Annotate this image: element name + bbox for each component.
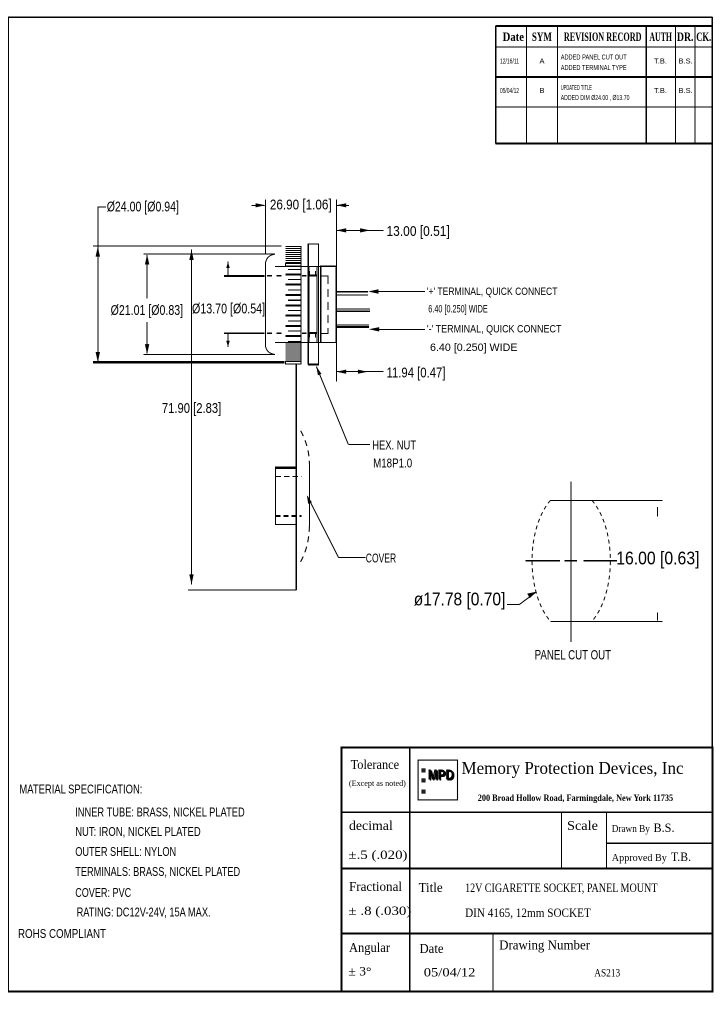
svg-text:AUTH: AUTH [649, 30, 672, 44]
svg-text:12V CIGARETTE SOCKET, PANEL MO: 12V CIGARETTE SOCKET, PANEL MOUNT [465, 881, 658, 895]
svg-text:Drawn By: Drawn By [612, 824, 651, 835]
svg-text:TERMINALS: BRASS, NICKEL PLATE: TERMINALS: BRASS, NICKEL PLATED [75, 864, 240, 879]
svg-text:12/16/11: 12/16/11 [500, 59, 519, 66]
flange arc bottom [266, 347, 275, 355]
svg-text:UPDATED TITLE: UPDATED TITLE [561, 83, 592, 92]
svg-text:PANEL CUT OUT: PANEL CUT OUT [535, 647, 612, 663]
revision row A [500, 52, 693, 72]
svg-text:T.B.: T.B. [654, 57, 667, 66]
svg-text:DIN 4165, 12mm SOCKET: DIN 4165, 12mm SOCKET [465, 906, 591, 920]
tube outline top (Ø21) [143, 253, 275, 255]
dim Ø21.01 [111, 255, 184, 355]
svg-text:Scale: Scale [567, 818, 598, 833]
cutout centerlines [526, 482, 617, 642]
svg-text:REVISION RECORD: REVISION RECORD [564, 30, 642, 44]
svg-text:COVER: PVC: COVER: PVC [75, 885, 131, 900]
bore line top hidden dashes [267, 275, 284, 277]
dim 16.00 ticks [656, 507, 658, 620]
svg-text:MATERIAL SPECIFICATION:: MATERIAL SPECIFICATION: [19, 782, 142, 797]
svg-text:± .8 (.030): ± .8 (.030) [348, 903, 411, 918]
hex nut [308, 244, 319, 364]
svg-text:B.S.: B.S. [654, 821, 675, 835]
middle terminal tab [336, 308, 370, 310]
cover strap dashed curve bottom [301, 526, 310, 562]
svg-text:6.40 [0.250] WIDE: 6.40 [0.250] WIDE [430, 342, 518, 354]
panel line [295, 364, 297, 591]
svg-text:±.5 (.020): ±.5 (.020) [348, 847, 407, 862]
svg-text:16.00 [0.63]: 16.00 [0.63] [616, 549, 699, 569]
dim 13.00 [336, 223, 450, 240]
cover cap rectangle [275, 468, 301, 525]
svg-text:MPD: MPD [428, 767, 454, 784]
rear body line bottom [275, 342, 336, 344]
svg-text:AS213: AS213 [594, 965, 620, 979]
svg-text:200 Broad Hollow Road, Farming: 200 Broad Hollow Road, Farmingdale, New … [478, 794, 674, 804]
rear body [321, 266, 337, 342]
svg-text:B.S.: B.S. [679, 86, 693, 95]
flange arc top [266, 254, 275, 262]
cover leader [307, 495, 366, 557]
knurl right edge [300, 246, 302, 363]
svg-text:A: A [540, 57, 545, 66]
dim Ø13.70 [192, 262, 265, 348]
svg-text:'-' TERMINAL, QUICK CONNECT: '-' TERMINAL, QUICK CONNECT [427, 324, 562, 336]
svg-text:B: B [540, 86, 545, 95]
material specification notes [18, 782, 245, 942]
svg-text:05/04/12: 05/04/12 [500, 88, 519, 95]
rear body hidden bore bracket [322, 275, 329, 277]
svg-text:ROHS COMPLIANT: ROHS COMPLIANT [18, 926, 106, 941]
cover strap solid mid [309, 464, 311, 526]
svg-text:'+' TERMINAL, QUICK CONNECT: '+' TERMINAL, QUICK CONNECT [427, 286, 558, 298]
terminals [336, 292, 370, 328]
svg-text:SYM: SYM [532, 30, 552, 44]
plus terminal leader [368, 289, 425, 293]
bore line bottom solid [224, 332, 265, 334]
svg-text:Drawing Number: Drawing Number [499, 938, 590, 953]
cover outline top (Ø24) [93, 246, 336, 362]
terminal labels [427, 286, 562, 354]
svg-text:OUTER SHELL: NYLON: OUTER SHELL: NYLON [75, 844, 176, 859]
svg-text:05/04/12: 05/04/12 [424, 964, 476, 979]
cutout flats [551, 500, 663, 621]
svg-text:ADDED DIM Ø24.00 , Ø13.70: ADDED DIM Ø24.00 , Ø13.70 [561, 93, 630, 102]
revision row B [500, 83, 693, 102]
dim Ø17.78 leader [414, 590, 537, 610]
svg-text:Ø21.01 [Ø0.83]: Ø21.01 [Ø0.83] [111, 302, 184, 319]
bore line bottom hidden dashes [267, 332, 284, 334]
cover outline bottom thick [93, 361, 285, 363]
svg-text:Fractional: Fractional [349, 879, 402, 894]
dim 11.94 [336, 364, 445, 381]
cutout dashed arcs [532, 500, 610, 621]
dim Ø24.00 [96, 199, 179, 362]
svg-text:Date: Date [420, 941, 444, 956]
svg-text:11.94 [0.47]: 11.94 [0.47] [387, 364, 446, 381]
plus terminal tab [336, 291, 368, 293]
svg-text:26.90 [1.06]: 26.90 [1.06] [270, 196, 332, 213]
knurl ribbed band [286, 246, 301, 364]
dim 71.90 [162, 250, 297, 590]
svg-text:COVER: COVER [366, 551, 396, 566]
svg-text:M18P1.0: M18P1.0 [373, 455, 412, 470]
svg-text:NUT: IRON, NICKEL PLATED: NUT: IRON, NICKEL PLATED [75, 824, 201, 839]
svg-text:Tolerance: Tolerance [351, 757, 400, 772]
bore line top solid (Ø13.70) [224, 275, 265, 277]
svg-text:Angular: Angular [349, 940, 390, 955]
cover strap dashed curve top [301, 431, 310, 464]
svg-text:HEX. NUT: HEX. NUT [372, 437, 416, 452]
revision table frame [496, 26, 713, 144]
svg-text:T.B.: T.B. [671, 850, 691, 864]
flange face vertical [265, 262, 267, 347]
svg-text:Memory Protection Devices, Inc: Memory Protection Devices, Inc [462, 758, 684, 778]
svg-text:DR.: DR. [677, 30, 694, 44]
revision table header text [503, 30, 712, 44]
svg-text:Ø24.00 [Ø0.94]: Ø24.00 [Ø0.94] [107, 199, 179, 216]
svg-text:Title: Title [419, 880, 443, 895]
dim 26.90 [252, 196, 350, 381]
hex nut leader [316, 367, 370, 445]
svg-text:INNER TUBE: BRASS, NICKEL PLAT: INNER TUBE: BRASS, NICKEL PLATED [75, 805, 245, 820]
svg-text:RATING: DC12V-24V, 15A MAX.: RATING: DC12V-24V, 15A MAX. [77, 905, 211, 920]
svg-text:6.40 [0.250] WIDE: 6.40 [0.250] WIDE [428, 303, 487, 315]
svg-text:± 3°: ± 3° [348, 963, 371, 978]
rear body line top [275, 265, 336, 267]
svg-text:decimal: decimal [349, 818, 393, 833]
svg-text:Date: Date [503, 30, 525, 44]
svg-text:Ø13.70 [Ø0.54]: Ø13.70 [Ø0.54] [192, 301, 265, 318]
svg-text:CK.: CK. [696, 30, 711, 44]
minus terminal tab [336, 324, 369, 326]
nut hidden bore dashes [308, 275, 317, 277]
svg-text:ø17.78 [0.70]: ø17.78 [0.70] [414, 590, 506, 610]
svg-text:(Except as noted): (Except as noted) [349, 779, 406, 788]
MPD logo [418, 760, 457, 800]
svg-text:T.B.: T.B. [654, 86, 667, 95]
svg-text:Approved By: Approved By [612, 853, 668, 864]
svg-text:13.00 [0.51]: 13.00 [0.51] [387, 223, 450, 240]
svg-text:B.S.: B.S. [679, 57, 693, 66]
tube outline bottom [143, 354, 275, 356]
svg-text:ADDED PANEL CUT OUT: ADDED PANEL CUT OUT [561, 52, 627, 61]
svg-text:ADDED TERMINAL TYPE: ADDED TERMINAL TYPE [561, 63, 627, 72]
minus terminal leader [369, 327, 425, 331]
